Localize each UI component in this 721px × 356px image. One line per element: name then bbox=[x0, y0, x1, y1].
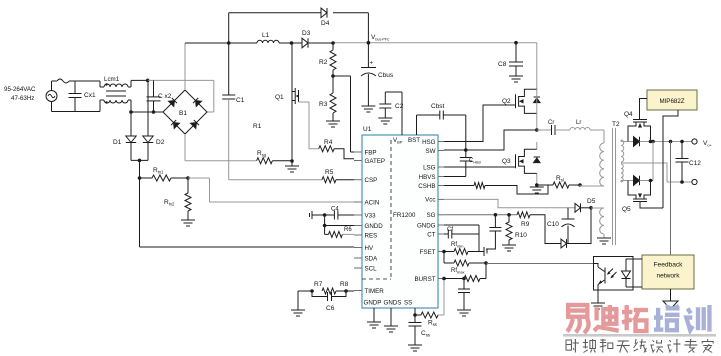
wire rail to L1 bbox=[229, 42, 257, 44]
svg-text:Css: Css bbox=[421, 330, 430, 338]
watermark underline bbox=[563, 334, 716, 337]
diode D6 low bbox=[561, 239, 567, 248]
capacitor Cr bbox=[537, 120, 570, 135]
resistor R9 bbox=[517, 212, 530, 228]
inductor L1 bbox=[257, 32, 279, 43]
wire PFC rail left bbox=[185, 42, 229, 44]
svg-text:BURST: BURST bbox=[415, 276, 436, 283]
wire diode to Vcc node bbox=[567, 206, 593, 244]
diode D8 sync top bbox=[628, 137, 671, 147]
svg-text:CHB3: CHB3 bbox=[469, 158, 481, 165]
capacitor Cx2 bbox=[147, 80, 172, 113]
svg-text:Rsg: Rsg bbox=[257, 150, 267, 158]
label R1 bbox=[253, 123, 262, 130]
node out top bbox=[649, 140, 655, 144]
svg-text:Cx1: Cx1 bbox=[84, 92, 96, 99]
svg-text:B1: B1 bbox=[179, 110, 187, 117]
optocoupler U2 box bbox=[594, 257, 634, 291]
wire half-bridge vertical bbox=[536, 89, 538, 185]
node SW Cbst bbox=[464, 148, 468, 152]
svg-text:SW: SW bbox=[426, 148, 436, 155]
svg-text:+: + bbox=[370, 61, 374, 67]
wire R9 to lower diode bbox=[530, 215, 561, 244]
wire GNDG bbox=[444, 225, 479, 252]
transistor Q1 bbox=[275, 43, 299, 161]
optocoupler light arrows bbox=[607, 269, 617, 279]
diode D4 bbox=[321, 8, 330, 27]
wire SG bbox=[444, 214, 517, 216]
node SG C9 bbox=[494, 213, 498, 217]
wire HV line bbox=[140, 178, 355, 247]
wire VBP stub bbox=[385, 92, 402, 135]
optocoupler LED bbox=[622, 259, 631, 287]
svg-text:D5: D5 bbox=[587, 198, 596, 205]
wire D4 branch bbox=[229, 13, 369, 43]
resistor RFmax bbox=[464, 276, 486, 282]
resistor R4 bbox=[319, 139, 335, 152]
capacitor Cf bbox=[444, 227, 479, 239]
wire out top bbox=[669, 140, 692, 144]
node top AC bbox=[146, 79, 150, 83]
resistor R10 bbox=[506, 215, 527, 245]
svg-text:Lcm1: Lcm1 bbox=[104, 76, 120, 83]
svg-text:R4: R4 bbox=[324, 139, 333, 146]
IC top pin labels bbox=[393, 137, 420, 145]
IC bottom pin labels bbox=[364, 300, 413, 307]
wire feedback to chassis bbox=[670, 289, 672, 301]
wire Vbus rail bbox=[308, 43, 537, 89]
ground below C7 bbox=[457, 310, 471, 316]
svg-text:Vcc: Vcc bbox=[425, 197, 435, 204]
svg-text:MIP682Z: MIP682Z bbox=[659, 98, 684, 105]
svg-text:Rss: Rss bbox=[428, 320, 437, 328]
wire FBP stub bbox=[351, 151, 355, 153]
svg-text:FBP: FBP bbox=[365, 149, 377, 156]
ground VBP rail bbox=[0, 0, 1, 1]
svg-text:C2: C2 bbox=[395, 103, 404, 110]
node C4 bbox=[323, 213, 327, 217]
svg-text:network: network bbox=[656, 273, 680, 280]
wire lower cathode up bbox=[651, 142, 654, 181]
wire Cx1 to Lcm1 bbox=[75, 81, 104, 112]
svg-text:Rfmin: Rfmin bbox=[451, 242, 463, 249]
svg-text:V33: V33 bbox=[365, 212, 377, 219]
svg-text:R8: R8 bbox=[340, 281, 349, 288]
pin SS wire bbox=[413, 308, 417, 317]
wire Rin node to ACIN bbox=[188, 178, 354, 202]
resistor Rss bbox=[415, 312, 438, 327]
svg-text:SCL: SCL bbox=[365, 265, 378, 272]
svg-text:C x2: C x2 bbox=[158, 93, 172, 100]
svg-text:Vbus-PFC: Vbus-PFC bbox=[371, 34, 390, 42]
svg-text:Q3: Q3 bbox=[502, 158, 511, 165]
wire MIP to Q5 gate bbox=[663, 110, 678, 208]
resistor Rsl bbox=[537, 175, 580, 188]
capacitor C6 bbox=[312, 291, 346, 312]
svg-text:Cbus: Cbus bbox=[378, 72, 394, 79]
node RFmax right bbox=[484, 261, 488, 265]
chassis ground bbox=[663, 301, 678, 309]
wire AC top loop to bridge right bbox=[148, 80, 214, 112]
IC pin stubs bbox=[354, 142, 444, 291]
svg-text:Rin2: Rin2 bbox=[164, 199, 175, 207]
transformer T2 primary bbox=[580, 143, 604, 186]
resistor R2 bbox=[319, 41, 336, 93]
wire SW bbox=[444, 130, 537, 150]
svg-text:C8: C8 bbox=[498, 61, 507, 68]
node SW hb bbox=[535, 128, 539, 132]
capacitor Cx1 bbox=[69, 81, 96, 112]
node rail C1 bbox=[227, 41, 231, 45]
svg-text:CSHB: CSHB bbox=[418, 183, 435, 190]
ground TIMER bbox=[291, 310, 305, 316]
svg-text:D4: D4 bbox=[321, 20, 330, 27]
resistor RFmid bbox=[444, 260, 486, 275]
wire LSG to Q3 gate bbox=[444, 166, 516, 168]
diode D3 bbox=[302, 30, 311, 48]
terminal Vo+ bbox=[692, 139, 713, 148]
wire BST bbox=[417, 115, 440, 135]
wire MIP to Q4 gate bbox=[640, 99, 648, 114]
ground below optocoupler bbox=[591, 303, 605, 309]
pin GNDS ground bbox=[384, 308, 398, 332]
svg-text:CT: CT bbox=[427, 231, 435, 238]
svg-text:ACIN: ACIN bbox=[365, 199, 380, 206]
capacitor CHB3 bbox=[460, 150, 481, 177]
wire bridge top to rail bbox=[184, 43, 186, 90]
svg-text:GNDS: GNDS bbox=[384, 300, 402, 307]
wire RFmax down bbox=[485, 263, 487, 279]
label Vbus bbox=[371, 34, 390, 42]
svg-text:Q2: Q2 bbox=[502, 98, 511, 105]
watermark logo text bbox=[567, 305, 709, 333]
svg-text:Rfmax: Rfmax bbox=[451, 268, 465, 275]
svg-text:HSG: HSG bbox=[422, 139, 436, 146]
wire BURST bbox=[442, 277, 466, 281]
svg-text:Vo+: Vo+ bbox=[703, 140, 713, 148]
regulator MIP682Z bbox=[647, 90, 697, 110]
pin GNDP ground bbox=[367, 308, 381, 328]
ground below Css bbox=[408, 345, 422, 351]
svg-text:HV: HV bbox=[365, 245, 374, 252]
terminal Vo- bbox=[692, 179, 697, 184]
node GNDD branch bbox=[323, 215, 354, 227]
svg-text:R9: R9 bbox=[521, 221, 530, 228]
ground below Q1 bbox=[285, 161, 299, 172]
ground below Cbus bbox=[361, 106, 375, 112]
ground below C2 bbox=[378, 118, 392, 124]
node Vbus bbox=[367, 41, 371, 45]
capacitor Cbus bbox=[361, 43, 394, 106]
svg-text:L1: L1 bbox=[262, 32, 270, 39]
feedback network box bbox=[642, 255, 694, 289]
transformer T2 aux winding bbox=[591, 208, 604, 238]
resistor Rsg bbox=[257, 150, 292, 164]
svg-text:CSP: CSP bbox=[365, 177, 378, 184]
transistor Q5 bbox=[622, 181, 663, 214]
wire Lcm1 to bridge top line bbox=[128, 80, 163, 112]
svg-text:Q5: Q5 bbox=[622, 206, 631, 213]
mini ground FSET bbox=[479, 247, 487, 256]
node R2 R3 bbox=[331, 74, 350, 152]
svg-text:Lr: Lr bbox=[576, 120, 581, 126]
inductor Lr bbox=[570, 120, 590, 130]
ground below Q3 bbox=[530, 185, 544, 193]
IC left pin labels bbox=[365, 149, 386, 294]
wire output to feedback bbox=[670, 142, 672, 256]
svg-text:47-63Hz: 47-63Hz bbox=[11, 95, 34, 102]
diode D5 bbox=[575, 198, 596, 212]
svg-text:LSG: LSG bbox=[423, 164, 436, 171]
resistor R6 bbox=[325, 226, 354, 238]
wire D1 D2 junction bbox=[131, 159, 148, 178]
wire Vcc bbox=[444, 199, 575, 207]
node Q1 source bbox=[290, 159, 294, 163]
svg-text:D1: D1 bbox=[113, 139, 122, 146]
diode D1 bbox=[113, 110, 136, 160]
svg-text:R3: R3 bbox=[319, 101, 328, 108]
wire center tap bbox=[621, 163, 667, 182]
wire AC source loop bbox=[52, 81, 76, 112]
transistor Q3 bbox=[502, 149, 540, 173]
svg-text:Q4: Q4 bbox=[624, 111, 633, 118]
ground below R10 bbox=[502, 245, 516, 251]
resistor R5 bbox=[322, 169, 354, 183]
resistor R7 bbox=[314, 281, 336, 294]
wire opto drive bbox=[486, 263, 594, 265]
node Q3 source bbox=[535, 183, 539, 187]
svg-text:GNDG: GNDG bbox=[417, 222, 436, 229]
wire R4 to GATEP bbox=[334, 149, 354, 159]
node TIMER right bbox=[336, 289, 354, 293]
svg-text:SDA: SDA bbox=[365, 255, 379, 262]
wire Rss to BURST bbox=[438, 279, 444, 316]
wire out bottom bbox=[667, 180, 692, 184]
svg-text:Cr: Cr bbox=[548, 120, 554, 126]
label R8 bbox=[340, 281, 349, 288]
transformer T2 secondary lower bbox=[621, 164, 628, 182]
svg-text:RES: RES bbox=[365, 232, 378, 239]
svg-text:FSET: FSET bbox=[420, 249, 436, 256]
diode D2 bbox=[143, 80, 165, 160]
svg-text:Q1: Q1 bbox=[275, 94, 284, 101]
svg-text:HBVS: HBVS bbox=[419, 174, 436, 181]
node TIMER left bbox=[298, 289, 314, 310]
svg-text:T2: T2 bbox=[612, 121, 620, 128]
capacitor C10 bbox=[547, 208, 575, 244]
capacitor C1 bbox=[222, 43, 244, 104]
svg-text:C1: C1 bbox=[236, 97, 245, 104]
diode D9 sync bottom bbox=[628, 176, 651, 186]
svg-text:Rin1: Rin1 bbox=[153, 167, 164, 175]
svg-text:R6: R6 bbox=[344, 227, 352, 233]
node R10 top bbox=[507, 213, 511, 217]
IC right pin labels bbox=[415, 139, 436, 283]
node FSET bbox=[442, 250, 446, 254]
transistor Q2 bbox=[502, 89, 540, 113]
transistor Q4 bbox=[624, 111, 651, 142]
svg-text:C10: C10 bbox=[547, 221, 559, 228]
svg-text:R7: R7 bbox=[314, 281, 323, 288]
svg-text:BST: BST bbox=[408, 137, 420, 144]
resistor Rin1 bbox=[140, 167, 189, 181]
resistor Rin2 bbox=[164, 178, 191, 220]
svg-text:R5: R5 bbox=[325, 169, 334, 176]
fuse F1 bbox=[57, 79, 69, 83]
node Rin bbox=[138, 176, 142, 180]
wire opto to feedback box bbox=[626, 259, 642, 287]
node Q5 right bbox=[649, 179, 653, 183]
svg-text:C12: C12 bbox=[689, 160, 701, 167]
svg-text:FR1200: FR1200 bbox=[393, 212, 416, 219]
wire Cbst to SW node bbox=[443, 115, 466, 150]
svg-text:R10: R10 bbox=[515, 232, 527, 239]
svg-text:U1: U1 bbox=[363, 126, 372, 133]
op-amp U1 FR1200 IC body bbox=[362, 135, 438, 308]
label U1 bbox=[363, 126, 372, 133]
ground below Rin2 bbox=[181, 220, 195, 226]
svg-text:95-264VAC: 95-264VAC bbox=[4, 86, 36, 93]
wire L1 to D3 bbox=[279, 41, 302, 45]
transformer T2 secondary upper bbox=[621, 140, 628, 162]
mini ground V33 bbox=[310, 211, 325, 219]
svg-text:Cf: Cf bbox=[447, 227, 453, 233]
AC source 95-264VAC bbox=[4, 86, 57, 102]
wire Lr to primary bbox=[590, 130, 604, 143]
capacitor Cbst bbox=[431, 103, 445, 120]
wire Q1 gate to R4 bbox=[299, 102, 319, 149]
capacitor C7 bbox=[458, 279, 470, 311]
wire FSET down bbox=[443, 252, 445, 264]
resistor R8 CSHB bbox=[444, 183, 548, 195]
wire bridge bottom to sense line bbox=[185, 134, 257, 161]
svg-text:D3: D3 bbox=[302, 30, 311, 37]
svg-text:SS: SS bbox=[404, 300, 412, 307]
wire HSG to Q2 gate bbox=[444, 105, 516, 142]
svg-text:Rsl: Rsl bbox=[556, 175, 564, 183]
svg-text:Cbst: Cbst bbox=[431, 103, 445, 110]
svg-text:TIMER: TIMER bbox=[365, 288, 385, 295]
ground below C8 bbox=[509, 76, 523, 82]
svg-text:Feedback: Feedback bbox=[654, 262, 684, 269]
bridge rectifier B1 bbox=[163, 90, 207, 134]
resistor RFmin bbox=[444, 242, 479, 255]
common-mode choke Lcm1 bbox=[104, 76, 128, 104]
svg-text:R1: R1 bbox=[253, 123, 262, 130]
svg-text:GATEP: GATEP bbox=[365, 158, 386, 165]
capacitor Css bbox=[409, 315, 430, 345]
svg-text:D2: D2 bbox=[156, 139, 165, 146]
svg-text:C4: C4 bbox=[331, 207, 339, 213]
resistor R3 bbox=[319, 93, 336, 121]
capacitor C12 bbox=[676, 142, 702, 183]
wire C1 to CSP line bbox=[229, 99, 322, 180]
svg-text:C6: C6 bbox=[326, 305, 335, 312]
svg-text:GNDD: GNDD bbox=[365, 223, 384, 230]
node Rin2 top bbox=[186, 176, 190, 180]
svg-text:R2: R2 bbox=[319, 59, 328, 66]
capacitor C4 bbox=[325, 207, 354, 220]
node Rsl right bbox=[578, 183, 582, 187]
optocoupler phototransistor bbox=[594, 264, 606, 304]
ground aux winding bbox=[597, 238, 611, 244]
svg-text:GNDP: GNDP bbox=[364, 300, 382, 307]
wire HBVS bbox=[444, 176, 466, 178]
capacitor C9 bbox=[486, 215, 501, 249]
capacitor C8 bbox=[498, 41, 523, 76]
ground below R3 bbox=[326, 121, 340, 127]
svg-text:SG: SG bbox=[427, 212, 436, 219]
transformer T2 core bbox=[612, 121, 620, 245]
capacitor C2 bbox=[379, 92, 403, 118]
